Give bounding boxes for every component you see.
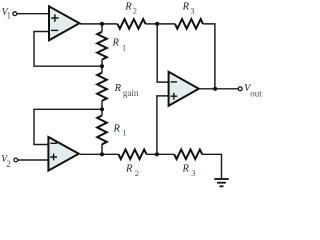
svg-text:3: 3 xyxy=(191,168,195,178)
wire R3 bottom to ground corner xyxy=(202,154,221,179)
resistor Rgain xyxy=(97,73,107,101)
svg-text:R: R xyxy=(182,2,190,13)
svg-text:R: R xyxy=(112,38,120,49)
label V1 xyxy=(2,7,11,21)
op-amp U2 + symbol xyxy=(50,154,57,161)
ground xyxy=(214,179,228,186)
svg-text:R: R xyxy=(182,164,190,175)
wire R3 top to corner down to output node xyxy=(203,24,215,89)
label R2 bottom xyxy=(125,164,139,178)
label R3 bottom xyxy=(182,164,196,178)
label Vout xyxy=(244,83,262,99)
node A (R1/Rgain) xyxy=(100,64,104,68)
wire U2 feedback: - input to node B xyxy=(34,109,102,144)
op-amp U3 + symbol xyxy=(171,93,178,100)
label V2 xyxy=(1,154,11,169)
op-amp U1 xyxy=(49,6,79,40)
label R2 top xyxy=(124,2,137,16)
wire bottom node up to U3 + input xyxy=(157,96,168,154)
wire U1 feedback: - input to node A xyxy=(34,32,102,67)
label R3 top xyxy=(182,2,195,16)
svg-text:R: R xyxy=(114,83,122,94)
resistor R3 (top) xyxy=(175,19,203,29)
wire V1 to op-amp U1 + input xyxy=(17,13,49,15)
op-amp U2 xyxy=(48,137,78,171)
node B (Rgain/R1) xyxy=(100,107,104,111)
wire V2 to op-amp U2 + input xyxy=(18,159,49,161)
svg-text:2: 2 xyxy=(135,168,139,178)
wire lead R1 to Rgain xyxy=(101,59,103,72)
svg-text:gain: gain xyxy=(123,88,139,98)
wire lead R1 bottom to node xyxy=(101,144,103,154)
svg-text:1: 1 xyxy=(7,11,12,21)
op-amp U2 - symbol xyxy=(50,142,57,144)
wire lead Rgain to R1 bottom xyxy=(101,101,103,116)
node output xyxy=(213,87,217,91)
wire top row: U1 output to R2 xyxy=(80,23,118,25)
wire R2 to R3 bottom xyxy=(147,153,175,155)
node junction bottom-left xyxy=(100,152,104,156)
svg-text:3: 3 xyxy=(190,6,194,16)
label Rgain xyxy=(114,83,139,98)
resistor R2 (top) xyxy=(118,19,146,29)
op-amp U1 + symbol xyxy=(51,14,58,21)
node junction top-left xyxy=(100,22,104,26)
resistor R2 (bottom) xyxy=(119,150,147,160)
node junction top-right xyxy=(155,22,159,26)
terminal V2 xyxy=(14,158,18,162)
wire lead node to R1 top xyxy=(101,24,103,32)
wire top node down to U3 - input xyxy=(157,24,168,82)
svg-text:2: 2 xyxy=(6,159,11,169)
svg-text:2: 2 xyxy=(133,5,137,15)
svg-text:out: out xyxy=(250,89,262,99)
op-amp U3 - symbol xyxy=(171,81,177,83)
resistor R1 (upper) xyxy=(97,32,107,60)
resistor R3 (bottom) xyxy=(174,150,202,160)
op-amp U1 - symbol xyxy=(51,29,58,31)
svg-text:R: R xyxy=(113,124,121,135)
wire U3 output to Vout xyxy=(199,88,239,90)
terminal V1 xyxy=(13,12,17,16)
svg-text:1: 1 xyxy=(122,43,126,53)
svg-text:R: R xyxy=(125,164,133,175)
label R1 lower xyxy=(113,124,127,138)
svg-text:R: R xyxy=(124,2,132,13)
terminal Vout xyxy=(238,87,242,91)
label R1 upper xyxy=(112,38,127,53)
wire bottom row: U2 output to R2 xyxy=(80,153,119,155)
op-amp U3 xyxy=(169,72,199,106)
resistor R1 (lower) xyxy=(97,116,107,145)
svg-text:1: 1 xyxy=(122,128,126,138)
wire R2 to R3 top xyxy=(146,23,176,25)
node junction bottom-right xyxy=(155,152,159,156)
